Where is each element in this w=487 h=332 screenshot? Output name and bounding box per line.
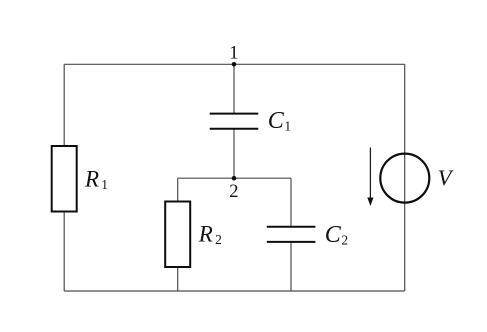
voltage source V — [380, 154, 454, 203]
wire: R2 bottom lead — [177, 267, 179, 291]
capacitor C1 — [210, 108, 291, 134]
svg-text:C1: C1 — [268, 108, 291, 134]
svg-text:C2: C2 — [325, 222, 348, 248]
wire: C1 bottom lead to node 2 — [233, 129, 235, 178]
wire: top-left horizontal (node 1 to top-left corner) — [64, 63, 234, 65]
wire: bottom horizontal — [64, 290, 405, 292]
wire: C2 top lead — [290, 178, 292, 227]
wire: left branch upper segment — [63, 64, 65, 146]
wire: right branch (through source V) — [404, 64, 406, 291]
svg-text:R2: R2 — [198, 221, 222, 247]
wire: C1 top lead from node 1 — [233, 64, 235, 113]
svg-text:2: 2 — [229, 182, 238, 202]
resistor R2 — [165, 202, 222, 268]
wire: C2 bottom lead — [290, 242, 292, 291]
capacitor C2 — [267, 222, 348, 248]
wire: left branch lower segment — [63, 211, 65, 291]
current direction arrow beside source V — [367, 148, 373, 207]
wire: R2 top lead — [177, 178, 179, 202]
svg-text:V: V — [438, 165, 454, 190]
node 1 (junction dot) — [232, 62, 237, 67]
resistor R1 — [52, 146, 108, 212]
svg-text:R1: R1 — [84, 166, 108, 192]
wire: top-right horizontal (node 1 to top-right corner) — [234, 63, 405, 65]
svg-text:1: 1 — [229, 43, 238, 63]
node 2 (junction dot) — [232, 176, 237, 181]
wire: node 2 horizontal rail — [178, 177, 291, 179]
